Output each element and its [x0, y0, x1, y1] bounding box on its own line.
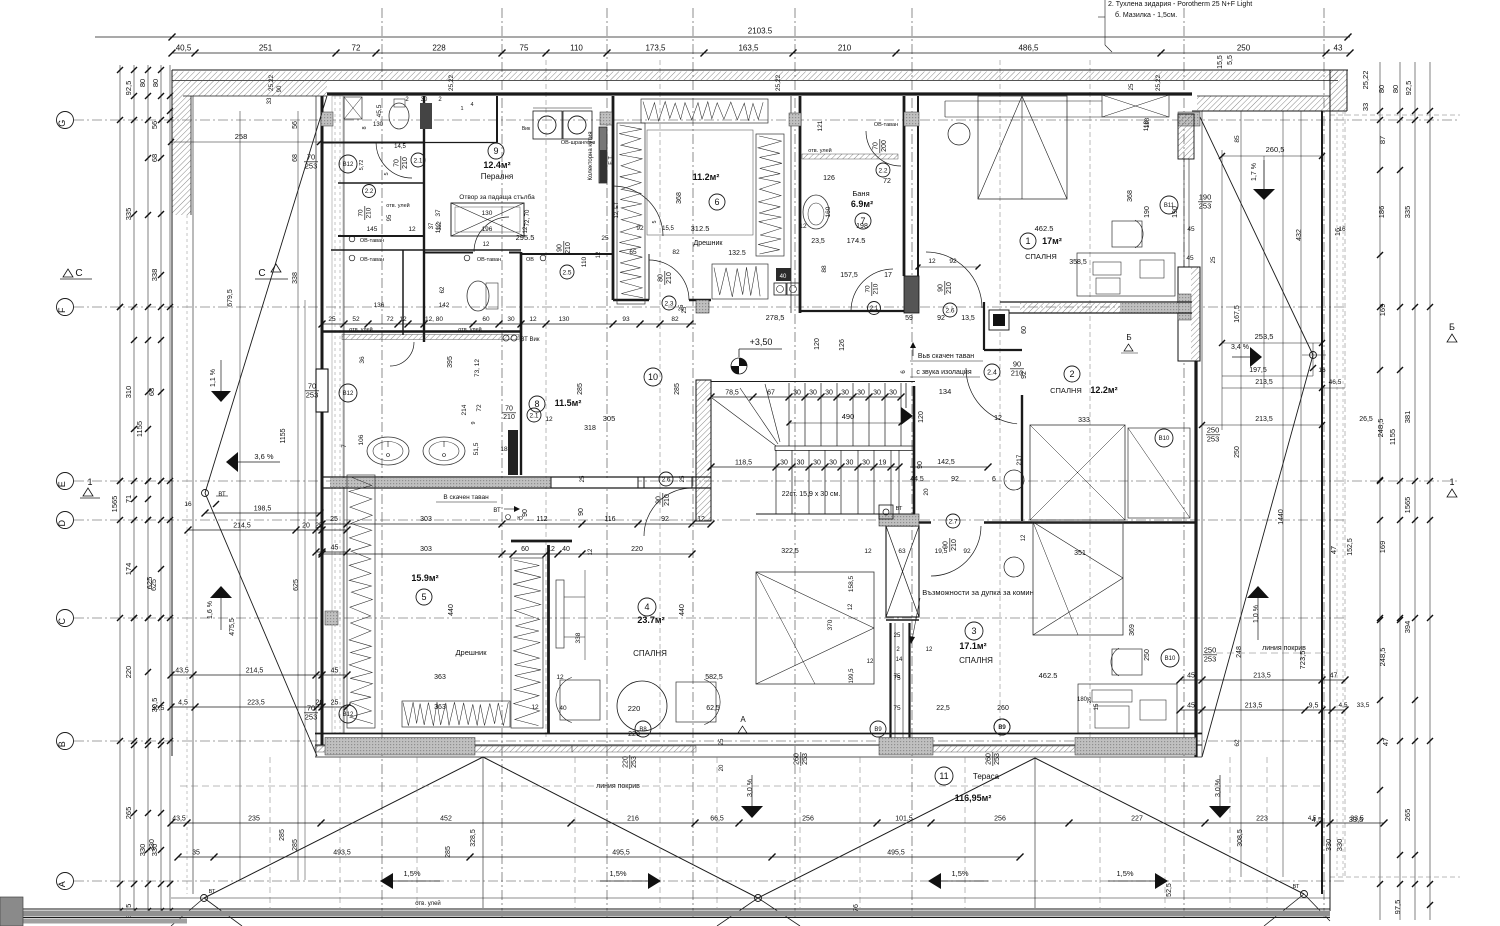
- svg-text:92: 92: [636, 225, 644, 232]
- svg-text:15.9м²: 15.9м²: [411, 573, 438, 583]
- bottom edge band: [0, 909, 1330, 924]
- small rotated dims 15.5 5.5: [1217, 55, 1234, 69]
- terrace dim row 2: [175, 850, 1024, 861]
- svg-text:90: 90: [1013, 360, 1021, 369]
- svg-text:330: 330: [1324, 839, 1333, 852]
- svg-text:3,6 %: 3,6 %: [254, 452, 274, 461]
- svg-text:92: 92: [661, 516, 669, 523]
- svg-text:Възможности за дупка за комин: Възможности за дупка за комин: [922, 588, 1033, 597]
- svg-text:190: 190: [1199, 193, 1212, 202]
- bottom left corner block: [0, 897, 23, 926]
- svg-text:1,1 %: 1,1 %: [210, 369, 217, 387]
- svg-text:линия покрив: линия покрив: [596, 783, 640, 790]
- folding stair opening: [435, 193, 535, 236]
- stair ВТ block: [879, 505, 903, 519]
- svg-text:134: 134: [939, 387, 952, 396]
- дрешник small closet zigzag: [712, 264, 768, 299]
- stairwell east wall: [913, 386, 916, 526]
- chimney corner wall bedroom1: [984, 302, 1028, 350]
- svg-text:92,5: 92,5: [124, 81, 133, 96]
- bedroom4 bed: [756, 572, 874, 684]
- svg-text:В10: В10: [1159, 436, 1170, 442]
- section marker 1 right: [1447, 477, 1457, 497]
- svg-text:625: 625: [293, 579, 300, 591]
- bedroom2 labels: [1021, 366, 1118, 424]
- suspended ceiling note: [901, 342, 983, 377]
- svg-text:9: 9: [493, 146, 498, 156]
- svg-text:253: 253: [1207, 435, 1220, 444]
- svg-text:46,5: 46,5: [1329, 379, 1342, 386]
- svg-text:186: 186: [1377, 206, 1386, 219]
- svg-text:3: 3: [971, 626, 976, 636]
- door 2.4 bedroom2: [966, 360, 1024, 424]
- svg-text:30,5: 30,5: [152, 705, 165, 712]
- svg-text:198,5: 198,5: [254, 506, 272, 513]
- svg-text:40: 40: [780, 274, 787, 280]
- svg-text:9: 9: [471, 421, 477, 424]
- svg-text:78,5: 78,5: [725, 390, 739, 397]
- svg-text:А: А: [740, 715, 746, 724]
- svg-text:330: 330: [149, 839, 156, 851]
- svg-text:93: 93: [622, 316, 630, 323]
- Б axis marker mid: [1121, 333, 1138, 353]
- svg-text:4: 4: [644, 602, 649, 612]
- bedroom2 bed: [1004, 425, 1190, 557]
- svg-text:395: 395: [447, 356, 454, 368]
- отв. улей label bottom: [415, 900, 441, 907]
- svg-text:253: 253: [305, 713, 318, 722]
- level mark symbol: [731, 349, 782, 374]
- svg-text:90: 90: [943, 541, 950, 549]
- room9 laundry labels: [481, 143, 514, 181]
- svg-text:1,7 %: 1,7 %: [1251, 163, 1258, 181]
- svg-text:13,5: 13,5: [961, 315, 975, 322]
- svg-text:253: 253: [306, 391, 319, 400]
- svg-text:17м²: 17м²: [1042, 236, 1062, 246]
- svg-text:2103.5: 2103.5: [748, 27, 773, 36]
- svg-text:1440: 1440: [1278, 509, 1285, 525]
- svg-text:223: 223: [1256, 816, 1268, 823]
- svg-text:335: 335: [124, 208, 133, 221]
- svg-text:47: 47: [1330, 673, 1338, 680]
- svg-text:3,0 %: 3,0 %: [747, 779, 754, 797]
- svg-text:45: 45: [1186, 255, 1194, 262]
- svg-text:493,5: 493,5: [333, 850, 351, 857]
- svg-text:30: 30: [797, 460, 805, 467]
- east terrace parapet wall: [1322, 70, 1343, 911]
- svg-text:214,5: 214,5: [246, 668, 264, 675]
- bedroom4 labels: [448, 598, 686, 658]
- bedroom4 tv: [556, 570, 585, 660]
- svg-text:1565: 1565: [110, 496, 119, 513]
- svg-text:72: 72: [476, 404, 483, 412]
- svg-text:1,6 %: 1,6 %: [207, 601, 214, 619]
- top overall dimension 2103.5: [95, 27, 1352, 41]
- svg-text:110: 110: [570, 44, 583, 53]
- svg-text:1155: 1155: [1388, 429, 1397, 445]
- svg-text:253: 253: [1199, 202, 1212, 211]
- svg-text:ВТ Вик: ВТ Вик: [521, 337, 540, 343]
- svg-text:отв. улей: отв. улей: [415, 900, 441, 907]
- svg-text:163,5: 163,5: [738, 44, 759, 53]
- svg-text:582,5: 582,5: [705, 674, 723, 681]
- top-left parapet corner hatched: [172, 70, 327, 756]
- svg-text:1155: 1155: [135, 421, 144, 437]
- svg-text:23.7м²: 23.7м²: [637, 615, 664, 625]
- svg-text:17: 17: [884, 272, 892, 279]
- svg-text:16: 16: [184, 501, 192, 508]
- svg-text:253: 253: [1204, 655, 1217, 664]
- svg-text:1: 1: [1449, 477, 1454, 487]
- svg-text:5,72: 5,72: [359, 160, 365, 171]
- stair dim row upper: [708, 390, 905, 401]
- svg-text:30: 30: [829, 460, 837, 467]
- svg-text:60: 60: [482, 316, 490, 323]
- svg-text:338: 338: [150, 269, 159, 282]
- svg-text:20: 20: [923, 488, 930, 496]
- doors top-left: [376, 102, 901, 366]
- svg-text:16: 16: [1338, 226, 1346, 233]
- room5 west closet zigzag: [347, 475, 375, 728]
- svg-text:СПАЛНЯ: СПАЛНЯ: [633, 649, 667, 658]
- svg-text:G: G: [57, 120, 67, 127]
- svg-text:90: 90: [557, 244, 564, 252]
- terrace roof ridge lines: [204, 757, 1304, 908]
- svg-text:3,0 %: 3,0 %: [1215, 779, 1222, 797]
- right dimension columns: [1345, 62, 1433, 920]
- svg-text:169: 169: [1378, 304, 1387, 317]
- svg-text:220: 220: [628, 731, 640, 738]
- svg-text:308,5: 308,5: [1237, 829, 1244, 847]
- stair label 22 steps: [782, 338, 846, 498]
- shelf room texts: [358, 144, 416, 233]
- svg-text:1: 1: [460, 106, 463, 112]
- svg-text:30: 30: [421, 97, 428, 103]
- top dimension chain: [169, 44, 1354, 57]
- svg-text:106: 106: [358, 434, 365, 445]
- svg-text:25: 25: [580, 475, 586, 482]
- svg-text:отв. улей: отв. улей: [808, 147, 831, 154]
- svg-text:303: 303: [420, 546, 432, 553]
- svg-text:10: 10: [648, 372, 658, 382]
- svg-text:43,5: 43,5: [175, 668, 189, 675]
- right rotated dimension texts: [1298, 71, 1413, 915]
- svg-text:37: 37: [435, 209, 442, 217]
- svg-text:251: 251: [259, 44, 273, 53]
- svg-text:22,5: 22,5: [936, 705, 950, 712]
- svg-text:44,5: 44,5: [910, 476, 924, 483]
- svg-text:В8: В8: [639, 727, 647, 733]
- right dashed helper lines: [1330, 115, 1460, 877]
- svg-text:227: 227: [1131, 816, 1143, 823]
- svg-text:210: 210: [1011, 369, 1024, 378]
- svg-text:40: 40: [559, 705, 567, 712]
- svg-text:142: 142: [439, 302, 450, 309]
- svg-text:213,5: 213,5: [1255, 416, 1273, 423]
- svg-text:120: 120: [918, 411, 925, 423]
- collector box: [588, 127, 614, 183]
- svg-text:318: 318: [584, 425, 596, 432]
- svg-text:8: 8: [362, 126, 368, 129]
- hall labels: [644, 337, 772, 386]
- room5 east closet zigzag: [511, 558, 543, 728]
- bedroom1 closet: [1102, 83, 1169, 128]
- svg-text:25: 25: [719, 738, 725, 745]
- svg-text:370: 370: [827, 619, 834, 630]
- section marker 1 left: [80, 477, 100, 498]
- svg-text:30: 30: [793, 390, 801, 397]
- top-left bath fixtures: [344, 97, 442, 130]
- svg-text:2.6: 2.6: [945, 307, 954, 314]
- svg-text:Е.Т.: Е.Т.: [608, 155, 614, 165]
- svg-text:333: 333: [1078, 417, 1090, 424]
- svg-text:25,22: 25,22: [775, 74, 782, 91]
- door 2.1 bedroom4: [644, 488, 692, 536]
- svg-text:43: 43: [1334, 44, 1343, 53]
- svg-text:68: 68: [150, 154, 159, 162]
- svg-text:328,5: 328,5: [470, 829, 477, 847]
- svg-text:75: 75: [893, 675, 901, 682]
- svg-text:12: 12: [523, 226, 529, 233]
- svg-text:25: 25: [680, 475, 686, 482]
- svg-text:2.2: 2.2: [365, 189, 374, 195]
- svg-text:12, ЕТ: 12, ЕТ: [614, 201, 620, 218]
- svg-text:В скачен таван: В скачен таван: [443, 494, 489, 501]
- svg-text:679,5: 679,5: [227, 289, 234, 307]
- svg-text:126: 126: [839, 339, 846, 351]
- svg-text:36: 36: [359, 356, 366, 364]
- svg-text:196: 196: [482, 226, 493, 233]
- svg-text:110: 110: [581, 256, 588, 267]
- svg-text:1,5%: 1,5%: [403, 869, 420, 878]
- svg-text:52,5: 52,5: [1166, 883, 1173, 897]
- svg-text:330: 330: [138, 844, 147, 857]
- bedroom3 west wall upper: [919, 521, 931, 523]
- svg-text:5: 5: [421, 592, 426, 602]
- svg-text:В12: В12: [343, 712, 354, 718]
- svg-text:12: 12: [483, 242, 490, 248]
- roof drain nodes: [171, 884, 1330, 926]
- svg-text:25: 25: [682, 306, 688, 313]
- terrace dashed horizontals: [180, 653, 1330, 786]
- svg-text:213,5: 213,5: [1245, 703, 1263, 710]
- svg-text:142,5: 142,5: [937, 459, 955, 466]
- svg-text:5: 5: [652, 220, 658, 223]
- terrace labels: [596, 645, 1306, 803]
- svg-text:В9: В9: [998, 725, 1006, 731]
- svg-text:11: 11: [939, 771, 948, 781]
- svg-text:1,5%: 1,5%: [1116, 869, 1133, 878]
- svg-text:369: 369: [1129, 624, 1136, 636]
- svg-text:ВТ: ВТ: [1293, 884, 1300, 890]
- svg-text:216: 216: [627, 816, 639, 823]
- svg-text:67: 67: [767, 390, 775, 397]
- svg-text:80: 80: [1391, 85, 1400, 93]
- svg-text:235: 235: [248, 816, 260, 823]
- svg-text:19: 19: [879, 460, 887, 467]
- svg-text:92: 92: [949, 258, 957, 265]
- svg-text:90: 90: [656, 496, 663, 504]
- svg-text:145: 145: [367, 226, 378, 233]
- svg-text:136: 136: [374, 302, 385, 309]
- svg-text:45: 45: [1187, 703, 1195, 710]
- svg-text:40: 40: [562, 546, 570, 553]
- svg-text:В10: В10: [1165, 656, 1176, 662]
- svg-text:D: D: [57, 519, 67, 526]
- svg-text:ОВ-таван: ОВ-таван: [874, 122, 898, 128]
- svg-text:12: 12: [408, 226, 416, 233]
- svg-text:33,5: 33,5: [1357, 702, 1370, 709]
- svg-text:25,22: 25,22: [448, 74, 455, 91]
- room6 south wall with opening: [613, 254, 711, 313]
- door 2.3 дрешник: [649, 260, 689, 313]
- svg-text:Отвор за падаща стълба: Отвор за падаща стълба: [459, 193, 535, 201]
- svg-text:2.1: 2.1: [413, 157, 422, 164]
- svg-text:A: A: [57, 881, 67, 887]
- svg-text:210: 210: [402, 157, 409, 169]
- svg-text:253: 253: [802, 753, 809, 765]
- svg-text:475,5: 475,5: [229, 618, 236, 636]
- svg-text:248,5: 248,5: [1376, 419, 1385, 438]
- terrace rotated dims: [149, 829, 1244, 912]
- right balcony vertical dim lines: [1202, 111, 1313, 877]
- svg-text:25: 25: [894, 633, 901, 639]
- svg-text:СПАЛНЯ: СПАЛНЯ: [1050, 386, 1082, 395]
- svg-text:462.5: 462.5: [1039, 671, 1058, 680]
- svg-text:33,5: 33,5: [1350, 816, 1364, 823]
- svg-text:33: 33: [267, 97, 273, 104]
- svg-text:72: 72: [883, 178, 891, 185]
- svg-text:210: 210: [666, 272, 673, 284]
- svg-text:173,5: 173,5: [645, 44, 666, 53]
- svg-text:82: 82: [671, 316, 679, 323]
- svg-text:260: 260: [794, 753, 801, 765]
- chimney note: [781, 548, 1034, 684]
- bedroom2 west wall + door: [1021, 395, 1023, 521]
- dim 258 top left: [168, 121, 323, 162]
- svg-text:ОВ: ОВ: [526, 257, 534, 263]
- svg-text:б. Мазилка - 1,5см.: б. Мазилка - 1,5см.: [1115, 11, 1177, 19]
- svg-text:ОВ-таван: ОВ-таван: [477, 257, 501, 263]
- svg-text:5: 5: [384, 172, 390, 175]
- svg-text:80: 80: [138, 79, 147, 87]
- дрешник top wall dims: [319, 316, 697, 328]
- section marker C left: [60, 268, 92, 279]
- svg-text:210: 210: [503, 414, 515, 421]
- svg-text:40,5: 40,5: [176, 44, 192, 53]
- svg-text:228: 228: [432, 44, 446, 53]
- svg-text:250: 250: [1144, 649, 1151, 661]
- top-left bath partition: [322, 96, 497, 143]
- svg-text:15,5: 15,5: [662, 226, 674, 232]
- top right construction note: [1098, 0, 1252, 52]
- left valley roof lines: [184, 96, 327, 756]
- svg-text:F: F: [57, 307, 67, 313]
- svg-text:4,5: 4,5: [1308, 816, 1317, 822]
- A axis marker mid: [738, 715, 747, 733]
- svg-text:285: 285: [279, 829, 286, 841]
- svg-text:с звука изолация: с звука изолация: [916, 369, 971, 376]
- svg-text:363: 363: [434, 674, 446, 681]
- svg-text:12, 80: 12, 80: [425, 316, 443, 323]
- svg-text:90: 90: [917, 461, 924, 469]
- svg-text:62: 62: [1234, 739, 1241, 747]
- svg-text:169: 169: [1378, 541, 1387, 554]
- svg-text:25,22: 25,22: [1155, 74, 1162, 91]
- svg-text:70: 70: [307, 153, 315, 162]
- svg-text:2.5: 2.5: [562, 269, 571, 276]
- svg-text:285: 285: [577, 383, 584, 395]
- bedroom1 desk chair: [1077, 114, 1194, 296]
- svg-text:97,5: 97,5: [1393, 900, 1402, 915]
- svg-text:70: 70: [308, 382, 316, 391]
- svg-text:80: 80: [1377, 85, 1386, 93]
- right balcony dims: [1127, 120, 1373, 555]
- svg-text:12: 12: [529, 316, 537, 323]
- В12 window labels west: [304, 153, 357, 724]
- svg-text:12: 12: [547, 546, 555, 553]
- svg-text:213,5: 213,5: [1255, 379, 1273, 386]
- stair dim row lower: [708, 459, 992, 471]
- svg-text:174.5: 174.5: [847, 236, 866, 245]
- svg-text:90: 90: [578, 508, 585, 516]
- svg-text:12: 12: [531, 704, 539, 711]
- svg-text:73, 12: 73, 12: [474, 359, 481, 377]
- svg-text:72, 70: 72, 70: [525, 209, 531, 226]
- bath8 sinks: [367, 437, 465, 465]
- svg-text:278,5: 278,5: [766, 313, 785, 322]
- chimney flue shaft tall: [886, 620, 919, 742]
- svg-text:116,95м²: 116,95м²: [955, 793, 992, 803]
- svg-text:368: 368: [1127, 190, 1134, 202]
- svg-text:198: 198: [856, 223, 868, 230]
- svg-text:1,5%: 1,5%: [951, 869, 968, 878]
- washer and dryer: [516, 108, 596, 242]
- west exterior wall: [316, 96, 344, 745]
- svg-text:2.3: 2.3: [664, 300, 673, 307]
- gray wall blocks on G axis: [600, 112, 1200, 126]
- svg-text:30: 30: [862, 460, 870, 467]
- svg-text:250: 250: [1207, 426, 1220, 435]
- svg-text:260,5: 260,5: [1266, 145, 1285, 154]
- bedroom3 dims: [1129, 624, 1370, 747]
- bedroom4/дрешник divider wall: [511, 541, 572, 733]
- svg-text:130: 130: [559, 316, 570, 323]
- svg-text:30: 30: [507, 316, 515, 323]
- svg-text:12: 12: [928, 258, 936, 265]
- svg-text:190: 190: [1172, 206, 1179, 218]
- svg-text:210: 210: [946, 282, 953, 294]
- shelf room partitions: [331, 183, 521, 335]
- svg-text:Колекторна кутия: Колекторна кутия: [588, 132, 594, 181]
- svg-text:B: B: [57, 741, 67, 747]
- svg-text:4: 4: [470, 102, 473, 108]
- room6 top closet zigzag: [641, 99, 768, 123]
- svg-text:3,4 %: 3,4 %: [1231, 344, 1249, 351]
- svg-text:256: 256: [994, 816, 1006, 823]
- bedroom1 labels: [1020, 224, 1087, 266]
- svg-text:358,5: 358,5: [1069, 259, 1087, 266]
- svg-text:Пералня: Пералня: [481, 172, 514, 181]
- door 2.5 corridor: [557, 186, 680, 279]
- svg-text:157,5: 157,5: [840, 272, 858, 279]
- svg-text:213,5: 213,5: [1253, 673, 1271, 680]
- svg-text:30: 30: [846, 460, 854, 467]
- svg-text:200: 200: [881, 140, 888, 152]
- svg-text:322,5: 322,5: [781, 548, 799, 555]
- svg-text:C: C: [57, 617, 67, 624]
- rotated band width dims 25,22: [267, 74, 1162, 104]
